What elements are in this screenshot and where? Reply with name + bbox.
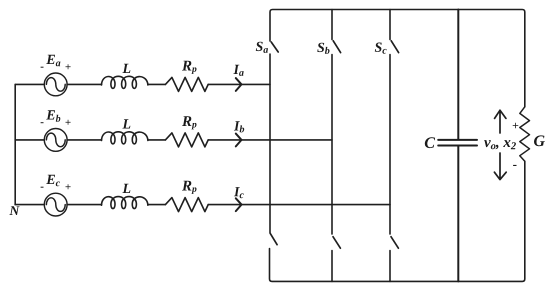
label Ea plus (66, 64, 71, 69)
label Ea minus (41, 67, 44, 68)
label Ea (46, 55, 60, 67)
label Sa (256, 42, 268, 53)
wire row-a inductor to resistor (148, 83, 166, 85)
switch Sc blade (391, 41, 398, 53)
label Rp row-b (182, 116, 197, 129)
label node N (9, 206, 19, 215)
capacitor C plates (438, 140, 477, 146)
wire row-b source lead (15, 139, 44, 141)
switch lower-3 blade (391, 237, 398, 249)
resistor Rp row-b (165, 133, 208, 147)
label vo x2 (484, 140, 516, 149)
label Eb (46, 110, 60, 122)
label output plus (513, 123, 519, 129)
output arrow up (495, 110, 506, 133)
source Ec circle (44, 193, 67, 216)
inductor L row-b (102, 132, 148, 144)
wire row-c resistor to leg3 (208, 204, 390, 206)
wire bottom bus with leg1 lower stub and right edge lower (270, 161, 525, 281)
label Ec (46, 175, 60, 187)
current arrow Ic head (236, 198, 242, 211)
inductor L row-a (102, 76, 148, 88)
source Ea sine (46, 78, 65, 92)
label L row-b (122, 119, 130, 128)
label L row-c (122, 184, 130, 193)
wire leg3 top stub (389, 10, 391, 40)
wire row-a resistor to leg1 (208, 83, 270, 85)
switch lower-1 blade (270, 233, 277, 245)
switch Sb blade (333, 41, 340, 53)
label Ic (234, 187, 244, 198)
label Eb minus (41, 122, 44, 123)
wire row-a source to inductor (67, 83, 101, 85)
switch lower-2 blade (333, 237, 340, 249)
label Ec minus (41, 187, 44, 188)
wire row-b inductor to resistor (148, 139, 166, 141)
label Ec plus (66, 184, 71, 189)
wire capacitor leg upper (457, 10, 459, 140)
wire row-b resistor to leg2 (208, 139, 332, 141)
wire leg2 middle (331, 55, 333, 235)
switch Sa blade (271, 42, 278, 52)
wire left neutral bus (14, 84, 16, 204)
label Ia (233, 65, 243, 76)
label Eb plus (66, 120, 71, 125)
label Sc (375, 43, 387, 54)
wire row-c source lead (15, 204, 44, 206)
wire row-b source to inductor (67, 139, 101, 141)
wire leg2 bottom stub (331, 251, 333, 282)
label C (425, 137, 435, 148)
wire row-c source to inductor (67, 204, 101, 206)
current arrow Ia head (236, 78, 242, 91)
source Ea circle (44, 73, 67, 96)
output arrow down (494, 153, 506, 180)
resistor Rp row-a (165, 77, 208, 91)
label Rp row-a (182, 61, 197, 74)
label Sb (317, 43, 329, 54)
label Ib (234, 121, 244, 132)
wire leg1 middle (269, 54, 271, 233)
wire row-c inductor to resistor (148, 204, 166, 206)
wire leg3 bottom stub (389, 251, 391, 282)
inductor L row-c (102, 197, 148, 209)
label L row-a (122, 64, 130, 73)
wire row-a source lead (15, 83, 44, 85)
label output minus (513, 165, 516, 166)
source Eb sine (46, 133, 65, 147)
wire leg2 top stub (331, 10, 333, 40)
current arrow Ib head (236, 134, 242, 147)
resistor Rp row-c (165, 198, 208, 212)
wire leg3 middle (389, 55, 391, 235)
source Eb circle (44, 129, 67, 152)
wire top bus with leg1 upper stub and right edge upper (270, 10, 525, 107)
source Ec sine (46, 198, 65, 212)
label Rp row-c (182, 181, 197, 194)
label G (534, 135, 545, 146)
resistor G zigzag (520, 107, 530, 162)
wire capacitor leg lower (457, 146, 459, 281)
